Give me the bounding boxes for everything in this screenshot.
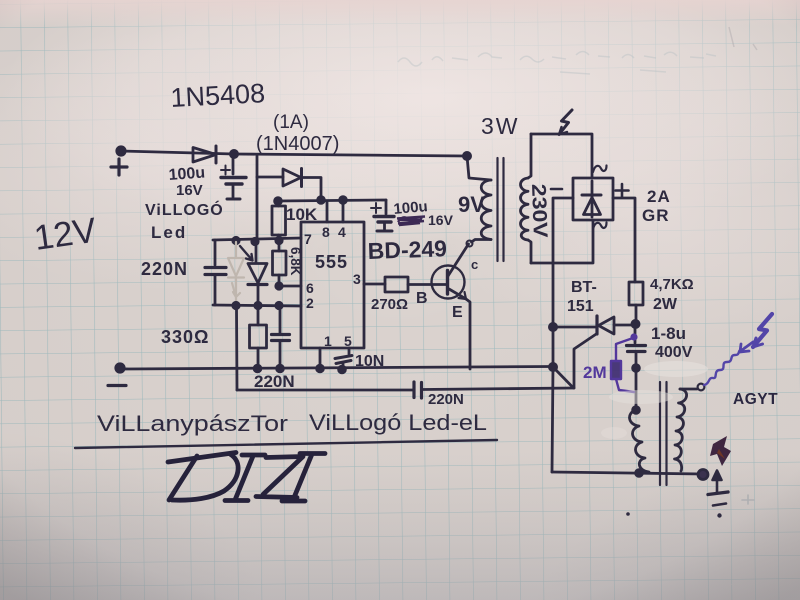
arrow mark dark red	[710, 436, 731, 466]
svg-text:E: E	[452, 304, 463, 321]
wire HV bottom rail	[552, 472, 703, 474]
wire pin8 stub	[326, 201, 329, 222]
title underline	[75, 440, 497, 448]
svg-text:8: 8	[322, 224, 330, 240]
svg-text:3: 3	[353, 271, 361, 287]
node HV primary top dot	[633, 407, 640, 414]
diode D2 1N4007	[283, 169, 321, 201]
AC tilde top	[593, 166, 607, 173]
svg-text:2: 2	[306, 295, 314, 311]
svg-text:151: 151	[567, 298, 594, 315]
svg-text:1: 1	[324, 333, 332, 349]
wire pin4 stub	[342, 200, 345, 222]
wire rail to lower rail link	[553, 367, 574, 388]
svg-text:9V: 9V	[458, 192, 485, 217]
node pin7 dots	[233, 237, 282, 244]
svg-text:2A: 2A	[647, 187, 671, 206]
svg-text:B: B	[416, 290, 428, 307]
svg-text:16V: 16V	[428, 212, 454, 228]
node C5 purple dot	[630, 333, 637, 340]
node ground rail dots	[254, 365, 345, 373]
svg-text:6: 6	[306, 280, 314, 296]
inductor T2 primary HV	[630, 410, 649, 472]
LED ghost erased	[228, 242, 244, 305]
lightning bolt purple AGYT	[753, 314, 772, 347]
transformer T2 core	[660, 382, 667, 485]
svg-text:400V: 400V	[655, 344, 693, 361]
svg-text:ViLLanypászTor: ViLLanypászTor	[97, 411, 288, 436]
wire lower rail 220N	[237, 389, 413, 392]
svg-text:2M: 2M	[583, 363, 607, 382]
wire pin6 net	[279, 285, 301, 288]
svg-text:2W: 2W	[653, 296, 678, 313]
whiteout patches	[601, 361, 708, 439]
svg-text:ViLLOGÓ: ViLLOGÓ	[145, 200, 224, 219]
wire secondary top to bridge	[531, 134, 592, 178]
node AGYT terminal circle	[698, 384, 705, 391]
node Vcc dots	[275, 197, 347, 205]
svg-text:4,7KΩ: 4,7KΩ	[650, 276, 694, 293]
wire pin3 to base	[364, 283, 446, 286]
svg-text:230V: 230V	[527, 183, 551, 238]
resistor R1 10K	[272, 201, 286, 241]
inductor T2 secondary HV	[675, 389, 687, 471]
node HV bottom dots	[636, 470, 708, 480]
svg-text:ViLLogó Led-eL: ViLLogó Led-eL	[309, 410, 487, 435]
wire cathode to ground rail	[552, 327, 555, 367]
svg-text:(1N4007): (1N4007)	[256, 133, 339, 155]
resistor R3 330	[250, 305, 267, 369]
svg-text:AGYT: AGYT	[733, 391, 778, 408]
node pin2 dots	[233, 302, 282, 308]
svg-text:6,8K: 6,8K	[288, 247, 303, 276]
node anode dot	[632, 320, 639, 327]
wire top rail 12V input	[121, 151, 467, 156]
capacitor C7 10N	[335, 348, 352, 370]
node + input terminal	[111, 147, 127, 175]
pencil mark faint	[742, 495, 754, 504]
IC U1 555	[301, 222, 364, 348]
wire drop to LED net	[256, 156, 259, 241]
wire R5 to anode node	[635, 305, 638, 324]
resistor R5 4.7K 2W	[629, 282, 643, 305]
ground arrow symbol	[708, 471, 728, 518]
capacitor C6 220N series	[414, 382, 574, 398]
capacitor C3 220N	[272, 305, 290, 369]
resistor R4 270	[385, 277, 408, 292]
inductor T1 primary 9V	[472, 180, 492, 242]
wire ground rail	[120, 367, 553, 370]
svg-text:10N: 10N	[355, 353, 384, 370]
svg-text:270Ω: 270Ω	[371, 296, 408, 313]
node T1 primary bottom terminal	[467, 241, 473, 247]
resistor R6 2M purple	[611, 338, 634, 392]
scribble strikethrough	[397, 217, 425, 226]
svg-text:220N: 220N	[428, 391, 464, 408]
wire from pin2 node down to lower rail	[235, 306, 238, 390]
wire secondary top to AGYT terminal	[680, 388, 697, 391]
ink speck	[626, 512, 630, 516]
svg-text:220N: 220N	[254, 372, 295, 391]
thyristor Q2 BT-151	[553, 316, 632, 334]
wire bridge minus output	[553, 198, 573, 327]
svg-text:100u: 100u	[393, 198, 429, 218]
resistor R2 6.8K	[273, 241, 287, 286]
svg-text:Led: Led	[151, 223, 187, 242]
svg-text:220N: 220N	[141, 259, 188, 279]
transformer T1 core	[498, 158, 504, 261]
spark squiggle purple	[704, 342, 753, 385]
capacitor C5 1-8u 400V	[627, 324, 646, 410]
svg-text:4: 4	[338, 224, 346, 240]
wire Vcc rail	[276, 200, 386, 201]
svg-text:16V: 16V	[176, 182, 203, 199]
transistor Q1 BD-249	[432, 244, 471, 369]
minus mark bridge	[551, 188, 562, 191]
capacitor C2 220N	[205, 240, 226, 305]
svg-text:10K: 10K	[286, 205, 318, 224]
LED D3 villogo	[240, 242, 267, 305]
svg-text:c: c	[471, 257, 478, 272]
node minus terminal	[108, 364, 126, 386]
svg-text:1N5408: 1N5408	[170, 78, 266, 113]
wire gate of BT-151	[574, 334, 597, 389]
inductor T1 secondary 230V	[521, 134, 532, 263]
svg-text:3W: 3W	[481, 113, 520, 139]
node transformer top junction	[463, 152, 470, 159]
capacitor C4 100u 16V	[371, 200, 394, 231]
lightning bolt mains	[559, 110, 572, 135]
svg-text:1-8u: 1-8u	[651, 324, 686, 343]
wire pin2 net	[213, 305, 301, 306]
signature DISI strokes	[168, 453, 325, 502]
svg-text:(1A): (1A)	[273, 112, 309, 133]
wire to T1 primary top	[467, 156, 491, 180]
svg-text:330Ω: 330Ω	[161, 327, 209, 347]
node A junction after D1	[230, 150, 237, 157]
bridge rectifier GR 2A	[573, 178, 613, 220]
node rail dot	[549, 363, 556, 370]
node pin6 dot	[276, 283, 282, 289]
wire bridge plus output	[613, 198, 635, 282]
wire down to HV loop	[552, 367, 553, 472]
svg-text:7: 7	[304, 231, 312, 247]
capacitor C1 100u 16V	[221, 154, 246, 199]
svg-text:5: 5	[344, 333, 352, 349]
node below C5 dot	[633, 365, 640, 372]
diode D1 1N5408	[193, 146, 216, 163]
wire branch to D2	[257, 176, 283, 179]
wire pin7 net	[213, 238, 301, 240]
wire pin1 stub	[319, 348, 322, 369]
AC tilde bottom	[593, 223, 607, 230]
svg-text:555: 555	[315, 252, 348, 272]
svg-text:BD-249: BD-249	[367, 235, 447, 264]
wire secondary bottom to bridge	[531, 220, 593, 263]
schematic ink	[75, 110, 772, 518]
svg-text:BT-: BT-	[571, 279, 597, 296]
svg-text:GR: GR	[642, 206, 670, 225]
node cathode dot	[549, 323, 556, 330]
plus mark bridge	[616, 184, 629, 197]
